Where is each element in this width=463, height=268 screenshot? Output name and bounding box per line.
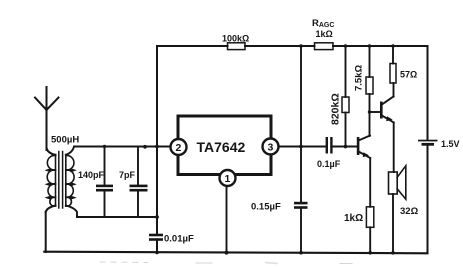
svg-text:32Ω: 32Ω [400,206,419,217]
wire left bias vertical [156,46,158,253]
junction bias crossing [155,145,159,149]
svg-text:820kΩ: 820kΩ [330,93,342,125]
svg-text:1kΩ: 1kΩ [344,213,363,224]
svg-text:7.5kΩ: 7.5kΩ [354,65,365,91]
wire Q2 collector up [393,83,395,97]
wire speaker to rail [392,194,394,253]
pin 3 [263,139,279,155]
junction top rail 7.5k [368,44,371,47]
wire pin 3 output line [279,146,358,148]
svg-text:3: 3 [268,142,274,154]
wire antenna lead down left side [46,148,56,252]
inductor L2 transformer secondary winding [66,155,77,207]
junction rail 1k [368,251,372,255]
resistor R3 820k bias [342,46,349,147]
resistor R4 7.5k collector load [366,46,373,136]
junction tuned bottom [155,215,159,219]
wire tuned circuit bottom line [77,216,157,218]
wire tuned node line to pin 2 [74,146,171,148]
svg-text:TA7642: TA7642 [197,139,246,155]
junction Q2 base node [368,110,371,113]
resistor R6 57 ohm [390,46,396,83]
wire pin 1 to ground rail [226,186,228,253]
svg-text:0.01µF: 0.01µF [164,234,194,245]
resistor R5 1k emitter [366,207,373,228]
svg-text:500µH: 500µH [51,135,79,146]
capacitor C3 0.01uF [149,234,163,241]
wire AGC decoupling vertical [300,46,302,253]
junction top rail at AGC node [299,44,302,47]
resistor R1 100k [228,43,246,50]
transistor Q2 [380,97,394,123]
capacitor C4 0.1uF coupling [326,137,333,154]
wire top rail [157,45,428,47]
svg-text:0.15µF: 0.15µF [251,202,281,213]
junction output line AGC [299,145,303,149]
capacitor C2 7pF [130,147,148,218]
junction rail pin1 [225,251,229,255]
svg-text:7pF: 7pF [119,170,136,180]
svg-text:57Ω: 57Ω [400,70,417,80]
junction top rail 820k [344,44,347,47]
pin 2 [171,139,187,155]
junction rail AGC [299,251,303,255]
svg-text:0.1µF: 0.1µF [317,159,341,169]
wire Q2 base line [370,111,381,113]
inductor L1 transformer 500uH primary winding [45,155,56,207]
antenna [35,87,59,150]
battery BT1 1.5V [418,140,438,146]
capacitor C1 140pF [96,147,113,218]
wire Q1 emitter down [369,158,371,207]
svg-text:100kΩ: 100kΩ [222,34,249,44]
wire Q2 emitter to speaker [393,123,395,173]
svg-text:1: 1 [225,173,231,185]
speaker LS1 [389,166,406,199]
wire R5 to rail [369,227,371,252]
op-amp U1 TA7642 body [178,116,271,175]
wire bottom ground rail [44,252,427,254]
transformer core [59,152,63,209]
capacitor C5 0.15uF [294,202,308,209]
wire right supply vertical [427,46,429,253]
wire secondary top to node line [66,147,74,155]
junction rail left bias [155,251,159,255]
junction output line 820k [344,145,348,149]
junction top rail 57ohm [391,44,394,47]
transistor Q1 [357,136,370,159]
wire secondary bottom lead [66,206,77,218]
svg-text:1.5V: 1.5V [441,139,460,149]
svg-text:140pF: 140pF [78,170,105,180]
svg-text:1kΩ: 1kΩ [316,29,333,39]
junction node line 7pF [143,145,147,149]
junction node line 140pF [103,145,106,148]
pin 1 [220,170,236,186]
resistor R2 RAGC 1k [315,43,334,50]
svg-text:2: 2 [176,142,182,154]
scan noise marks [100,262,352,264]
junction rail speaker [391,251,395,255]
